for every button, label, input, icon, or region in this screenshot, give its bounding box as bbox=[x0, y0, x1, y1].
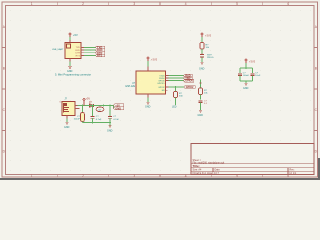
wire RTS bbox=[84, 55, 96, 57]
power +3V3 caps bbox=[245, 59, 256, 64]
wire caps vertical bbox=[245, 63, 247, 68]
svg-text:GND: GND bbox=[107, 130, 113, 133]
border zone numbers bbox=[3, 2, 318, 178]
resistor R3 text bbox=[179, 93, 183, 98]
wire led down 2 bbox=[175, 98, 177, 106]
svg-text:5. Mini Programming connector: 5. Mini Programming connector bbox=[55, 73, 91, 77]
pin U1 gnd bbox=[147, 94, 149, 98]
pin J1 vcc bbox=[69, 40, 71, 43]
IC U1 body bbox=[136, 71, 166, 94]
global label GPIO0 bbox=[184, 79, 194, 83]
svg-text:Id: 1/1: Id: 1/1 bbox=[290, 172, 297, 175]
wire rail to labels bbox=[104, 105, 114, 107]
global label GND out bbox=[114, 106, 124, 110]
wire c1 drop bbox=[82, 106, 84, 113]
svg-text:10uF: 10uF bbox=[255, 75, 261, 77]
scrollbar thumb right bbox=[318, 158, 320, 180]
wire cap5 left drop bbox=[239, 68, 241, 73]
pin J1 right stubs bbox=[81, 47, 84, 55]
power +5V rail bbox=[83, 98, 90, 106]
wire R1 top bbox=[201, 37, 203, 43]
pin J2 data bbox=[75, 108, 80, 110]
capacitor C4 text bbox=[204, 101, 208, 106]
pin stub chain2 top bbox=[199, 82, 201, 84]
wire gnd drop bbox=[109, 123, 111, 126]
wire cap6 bottom drop bbox=[252, 75, 254, 81]
wire DTR bbox=[84, 52, 96, 54]
wire label jog bbox=[113, 106, 115, 109]
pin J2 shield bbox=[66, 116, 68, 119]
capacitor C1 text bbox=[74, 116, 81, 121]
wire caps top rail bbox=[240, 67, 253, 69]
power +3V3 R1 bbox=[201, 33, 212, 38]
window edge right bbox=[318, 0, 320, 180]
ground J1 bbox=[68, 66, 72, 68]
svg-text:B: B bbox=[315, 67, 317, 71]
junction rail c1 bbox=[82, 105, 84, 107]
wire chain2 top bbox=[200, 80, 202, 89]
transistor Q1 body bbox=[96, 105, 104, 112]
global label +5V out bbox=[114, 103, 124, 107]
svg-text:3: 3 bbox=[133, 174, 135, 178]
resistor R2 bbox=[199, 88, 203, 95]
svg-text:4: 4 bbox=[185, 174, 187, 178]
IC U1 pin names bbox=[157, 75, 165, 92]
global label TXD bbox=[96, 46, 105, 50]
svg-text:100uF: 100uF bbox=[74, 118, 81, 120]
connector J1 pin names bbox=[75, 47, 80, 57]
svg-text:+3V3: +3V3 bbox=[205, 34, 212, 38]
svg-text:Title:: Title: bbox=[193, 164, 200, 168]
svg-text:+5V: +5V bbox=[73, 33, 78, 37]
wire c1 bottom bbox=[82, 122, 84, 123]
wire c2 drop bbox=[92, 106, 94, 116]
capacitor C2 text bbox=[96, 116, 102, 121]
wire U1 txd bbox=[169, 75, 184, 77]
switch SW1 bbox=[200, 54, 204, 58]
svg-text:1: 1 bbox=[31, 174, 33, 178]
svg-text:4.7uF: 4.7uF bbox=[96, 119, 102, 121]
title block bbox=[191, 144, 314, 175]
svg-text:6: 6 bbox=[287, 2, 289, 6]
svg-text:4: 4 bbox=[185, 2, 187, 6]
global label RXD u1 bbox=[184, 74, 193, 78]
svg-text:TXD: TXD bbox=[76, 47, 81, 49]
capacitor C2 bbox=[90, 117, 94, 119]
svg-text:1: 1 bbox=[31, 2, 33, 6]
wire caps bottom rail bbox=[240, 80, 253, 82]
wire c2 bottom bbox=[92, 118, 94, 122]
global label DTR bbox=[96, 51, 105, 55]
svg-text:3: 3 bbox=[133, 2, 135, 6]
switch SW1 text bbox=[207, 55, 214, 60]
window edge bottom bbox=[0, 178, 320, 180]
IC U1 reference text bbox=[126, 83, 136, 88]
svg-text:2: 2 bbox=[82, 2, 84, 6]
ground J2 bbox=[65, 122, 68, 124]
svg-text:DTR: DTR bbox=[76, 53, 81, 55]
svg-text:B: B bbox=[3, 67, 5, 71]
wire led down bbox=[175, 87, 177, 92]
wire c3 drop bbox=[109, 106, 111, 116]
wire gnd bottom rail bbox=[83, 122, 111, 124]
svg-text:ESP-12E: ESP-12E bbox=[126, 86, 136, 88]
svg-text:+3V3: +3V3 bbox=[151, 58, 158, 62]
svg-text:RTS: RTS bbox=[97, 54, 102, 58]
sheet inner border bbox=[6, 6, 315, 175]
sheet outer border bbox=[2, 2, 318, 177]
pin U1 vcc bbox=[147, 67, 149, 72]
capacitor C5 bbox=[238, 74, 242, 76]
ground power rail bbox=[108, 126, 111, 128]
power +3V3 U1 bbox=[147, 57, 158, 62]
ground U1 bbox=[146, 102, 149, 104]
wire cap6 right drop bbox=[252, 68, 254, 73]
wire U1 vcc bbox=[147, 61, 149, 67]
capacitor C3 text bbox=[113, 116, 119, 121]
pin U1 right stubs bbox=[166, 76, 169, 91]
wire TXD bbox=[84, 46, 96, 48]
svg-text:4.7uF: 4.7uF bbox=[113, 119, 119, 121]
svg-text:GND: GND bbox=[198, 114, 204, 117]
pin J2 vbus bbox=[75, 105, 78, 107]
svg-text:GND: GND bbox=[243, 87, 249, 90]
wire U1 gpio0 bbox=[169, 80, 184, 82]
ground SW1 bbox=[200, 62, 203, 64]
junction bottom rail b bbox=[92, 122, 94, 124]
svg-text:GND: GND bbox=[64, 126, 70, 129]
svg-text:GPIO15: GPIO15 bbox=[157, 83, 165, 85]
capacitor C4 bbox=[198, 101, 202, 103]
wire cap5 bottom drop bbox=[239, 75, 241, 81]
ground caps bbox=[244, 83, 247, 85]
resistor R1 text bbox=[206, 44, 210, 49]
wire J2 shield gnd bbox=[66, 119, 68, 123]
connector J1 body bbox=[65, 43, 81, 59]
capacitor C6 text bbox=[255, 72, 261, 77]
wire vbus rail left bbox=[78, 105, 89, 107]
global label TXD u1 bbox=[184, 76, 193, 80]
ground chain2 bbox=[199, 110, 202, 112]
wire RXD bbox=[84, 49, 96, 51]
svg-text:GPIO0: GPIO0 bbox=[185, 80, 193, 83]
global label LED bbox=[184, 86, 195, 90]
capacitor C5 text bbox=[243, 72, 250, 77]
power +5V J1 top bbox=[69, 33, 78, 37]
capacitor C1 electrolytic bbox=[81, 113, 85, 122]
capacitor C3 bbox=[108, 117, 112, 119]
svg-text:100nF: 100nF bbox=[243, 75, 250, 77]
svg-text:GPIO2: GPIO2 bbox=[158, 87, 165, 89]
svg-text:SW?: SW? bbox=[207, 55, 213, 57]
title block text bbox=[193, 159, 297, 175]
svg-text:USB_UART: USB_UART bbox=[52, 48, 64, 51]
svg-text:RTS: RTS bbox=[76, 55, 81, 57]
svg-text:+3V3: +3V3 bbox=[249, 60, 256, 64]
wire SW1 gnd bbox=[201, 58, 203, 63]
wire U1 led bbox=[169, 86, 185, 88]
svg-text:2: 2 bbox=[82, 174, 84, 178]
junction c2 bbox=[92, 105, 94, 107]
pin J1 gnd bbox=[69, 59, 71, 62]
junction rail c3 bbox=[109, 105, 111, 107]
svg-text:GND: GND bbox=[145, 106, 151, 109]
resistor R2 text bbox=[204, 90, 208, 95]
svg-text:KiCad E.D.A. kicad 4.0.7: KiCad E.D.A. kicad 4.0.7 bbox=[193, 172, 220, 175]
resistor R3 led bbox=[174, 92, 178, 98]
wire U1 gnd bbox=[147, 98, 149, 103]
wire R1 to SW1 bbox=[201, 49, 203, 54]
connector J2 body bbox=[62, 102, 75, 116]
wire C4 gnd bbox=[200, 102, 202, 110]
wire U1 rxd bbox=[169, 77, 184, 79]
wire J1 gnd bbox=[69, 62, 71, 67]
wire J1 vcc bbox=[69, 37, 71, 40]
diode D1 wire through bbox=[89, 105, 97, 107]
global label RTS bbox=[96, 54, 105, 58]
svg-text:+5V: +5V bbox=[86, 98, 91, 101]
capacitor C6 bbox=[250, 74, 254, 76]
wire c3 bottom bbox=[109, 118, 111, 122]
junction led wire bbox=[175, 86, 177, 88]
junction caps top bbox=[245, 67, 247, 69]
junction bottom rail bbox=[109, 122, 111, 124]
border column ticks bbox=[2, 2, 318, 177]
svg-text:5: 5 bbox=[236, 2, 238, 6]
global label RXD bbox=[96, 48, 105, 52]
svg-text:PROG: PROG bbox=[207, 57, 214, 59]
resistor R1 bbox=[200, 43, 204, 50]
svg-text:GND: GND bbox=[199, 68, 205, 71]
svg-text:LED: LED bbox=[172, 107, 177, 109]
svg-text:GND: GND bbox=[115, 106, 121, 110]
wire R2 down bbox=[200, 95, 202, 100]
diode D1 bbox=[89, 102, 94, 107]
svg-text:RXD: RXD bbox=[75, 50, 80, 52]
wire caps gnd bbox=[245, 81, 247, 83]
svg-text:GPIO2: GPIO2 bbox=[186, 86, 194, 89]
